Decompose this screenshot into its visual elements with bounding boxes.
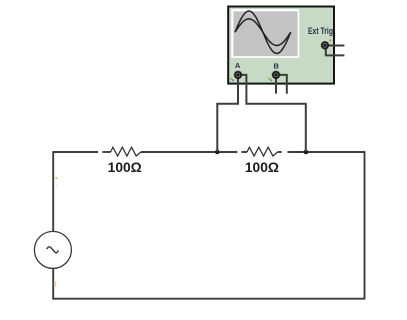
svg-text:100Ω: 100Ω — [245, 160, 279, 175]
svg-text:A: A — [235, 61, 241, 70]
svg-text:B: B — [273, 61, 279, 70]
svg-text:100Ω: 100Ω — [108, 160, 142, 175]
svg-text:Ext Trig: Ext Trig — [308, 26, 333, 36]
